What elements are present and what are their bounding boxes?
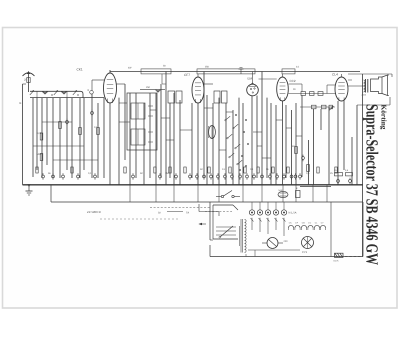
fuse resistor [334, 253, 344, 262]
wire [206, 95, 208, 185]
wire [141, 69, 171, 74]
wire [289, 93, 337, 95]
resistor [37, 153, 43, 161]
wire [285, 105, 287, 178]
voltage selector [249, 202, 296, 222]
wire [140, 86, 165, 90]
wire [179, 100, 181, 185]
wire [59, 98, 61, 178]
svg-text:N 1,5A: N 1,5A [289, 212, 297, 215]
capacitor [278, 189, 288, 198]
resistor row [36, 167, 337, 173]
wire [242, 103, 244, 185]
wire [100, 218, 180, 220]
wire [282, 185, 284, 202]
capacitor [349, 178, 352, 185]
svg-text:5000: 5000 [37, 153, 43, 156]
variable capacitor [54, 90, 58, 95]
resistor [312, 105, 317, 109]
wire [238, 98, 240, 185]
wire [266, 98, 268, 178]
mains switch [216, 191, 240, 198]
wire [173, 93, 175, 185]
wire [261, 72, 263, 185]
tube CL4 [332, 73, 348, 102]
variable capacitor [30, 90, 34, 95]
wire [205, 211, 232, 213]
wire [32, 98, 34, 177]
svg-text:CC2: CC2 [290, 79, 296, 83]
wire [109, 103, 111, 185]
wire [103, 98, 105, 178]
wire [270, 103, 272, 185]
wire [301, 96, 303, 178]
resistor [301, 92, 306, 96]
wire [320, 109, 322, 130]
IF transformer [168, 91, 182, 103]
node Bl [239, 67, 244, 74]
resistor [318, 92, 323, 96]
wire [218, 185, 220, 202]
wire [282, 69, 295, 74]
wire [308, 140, 310, 185]
coupling coil [88, 89, 94, 94]
wire [242, 185, 244, 202]
power supply block [210, 202, 363, 257]
wire [149, 93, 151, 178]
capacitor [296, 187, 301, 198]
svg-text:E: E [20, 101, 22, 105]
ground bus [23, 185, 364, 187]
wire [46, 98, 48, 165]
svg-text:220: 220 [284, 240, 289, 243]
coil osc [155, 90, 161, 93]
resistor [322, 105, 327, 109]
resistor [79, 128, 82, 135]
output transformer [362, 79, 368, 97]
wire [119, 103, 302, 158]
tube CF7 [184, 73, 204, 103]
wire [337, 101, 339, 185]
heater windings [288, 222, 325, 231]
svg-text:EM: EM [248, 77, 253, 81]
wire [212, 103, 214, 185]
wire [345, 256, 363, 258]
wire [351, 137, 353, 185]
wire [42, 121, 72, 123]
wire [110, 70, 360, 73]
wire [282, 101, 284, 185]
wire [252, 218, 284, 236]
node ZF [87, 210, 102, 214]
coil L1 [42, 92, 48, 95]
wire [97, 103, 99, 178]
capacitor C2 [91, 110, 94, 117]
svg-text:CF7: CF7 [184, 73, 190, 77]
wire [348, 80, 364, 86]
wire [66, 98, 68, 170]
capacitor C1 [66, 119, 69, 126]
wire [124, 84, 126, 160]
wire [261, 185, 263, 202]
wire [198, 223, 206, 225]
wire [357, 97, 390, 105]
wire [30, 91, 83, 97]
svg-text:250: 250 [146, 86, 151, 89]
wire [312, 185, 314, 202]
wire [129, 185, 131, 202]
resistor [307, 165, 310, 172]
wire [169, 103, 171, 178]
resistor [37, 132, 43, 140]
wire [36, 98, 38, 170]
wire [91, 94, 93, 178]
wire [155, 185, 157, 202]
resistor [310, 92, 315, 96]
wire [20, 84, 27, 185]
pickup [262, 238, 283, 249]
wire [197, 69, 255, 74]
title Körting [380, 105, 388, 130]
capacitor row [42, 173, 302, 180]
wire [275, 105, 277, 185]
wire [218, 98, 220, 185]
resistor [292, 145, 297, 154]
resistor [345, 169, 353, 176]
wave switch [225, 114, 249, 171]
wire [251, 96, 253, 185]
mains transformer [240, 219, 247, 253]
wire [225, 103, 227, 185]
wire [289, 84, 303, 92]
wire [33, 145, 84, 147]
wire [295, 103, 297, 185]
wire [362, 74, 364, 256]
wire [79, 98, 81, 178]
wire [327, 85, 335, 94]
wire [300, 106, 335, 111]
wire [246, 250, 255, 257]
wire [51, 185, 363, 202]
wire [41, 98, 43, 178]
svg-text:Supra-Selector 37 SB 4346 GW: Supra-Selector 37 SB 4346 GW [363, 104, 382, 265]
wire [326, 185, 328, 202]
antenna [23, 71, 35, 92]
svg-text:CK1: CK1 [77, 68, 83, 72]
svg-text:0,5 A: 0,5 A [334, 260, 340, 263]
wire [356, 105, 358, 185]
wire [117, 83, 126, 85]
wire [295, 185, 297, 202]
wire [129, 93, 131, 185]
rectifier CY2 [284, 237, 314, 255]
wire [53, 159, 98, 161]
wire [256, 96, 258, 179]
wire [30, 97, 104, 99]
svg-text:CY2: CY2 [302, 251, 308, 254]
resistor [94, 126, 99, 135]
wire [155, 93, 157, 185]
loudspeaker [371, 75, 390, 96]
svg-text:TA: TA [186, 212, 189, 215]
title Supra-Selector 37 SB 4346 GW [363, 104, 382, 265]
resistor [329, 105, 333, 109]
wire [291, 110, 293, 185]
coil L2 [61, 92, 67, 95]
wire [312, 109, 314, 185]
IF bandfilter [127, 93, 157, 150]
tube CC2 [277, 74, 296, 101]
wire [191, 103, 193, 178]
wire [248, 249, 300, 251]
IF transformer [214, 91, 227, 103]
wire [204, 83, 213, 85]
tube CB2 [247, 72, 259, 96]
wire [199, 204, 219, 216]
wire [150, 207, 210, 209]
wire [203, 72, 205, 179]
wire [143, 103, 145, 185]
svg-text:ZF=468 Hz: ZF=468 Hz [87, 210, 102, 214]
capacitor [337, 178, 340, 185]
wire [37, 91, 79, 97]
resistor [334, 169, 343, 176]
wire [165, 72, 167, 185]
wire [328, 107, 330, 185]
svg-text:1M: 1M [165, 172, 168, 175]
wire [343, 101, 345, 170]
svg-text:0,05: 0,05 [37, 132, 42, 135]
wire [83, 98, 85, 170]
wire [92, 80, 104, 91]
switch lever [219, 226, 233, 238]
wire [118, 98, 120, 185]
value labels [48, 168, 333, 175]
wire [232, 110, 234, 185]
wire [173, 185, 175, 202]
resistor [59, 122, 62, 129]
svg-text:CL4: CL4 [332, 73, 338, 77]
wire [162, 74, 166, 84]
wire [71, 98, 73, 178]
chassis bracket [213, 205, 238, 239]
node TA [158, 212, 189, 215]
wire [160, 84, 162, 178]
oscillator coil [209, 126, 216, 139]
wire [52, 98, 54, 178]
wire [197, 103, 199, 185]
ground [26, 184, 33, 195]
wire [135, 93, 137, 178]
value labels [128, 65, 300, 70]
variable capacitor [73, 90, 77, 95]
wire [197, 185, 199, 202]
tube CK1 [77, 68, 117, 104]
capacitor [302, 155, 305, 162]
wire [259, 78, 277, 80]
wire [348, 74, 392, 77]
